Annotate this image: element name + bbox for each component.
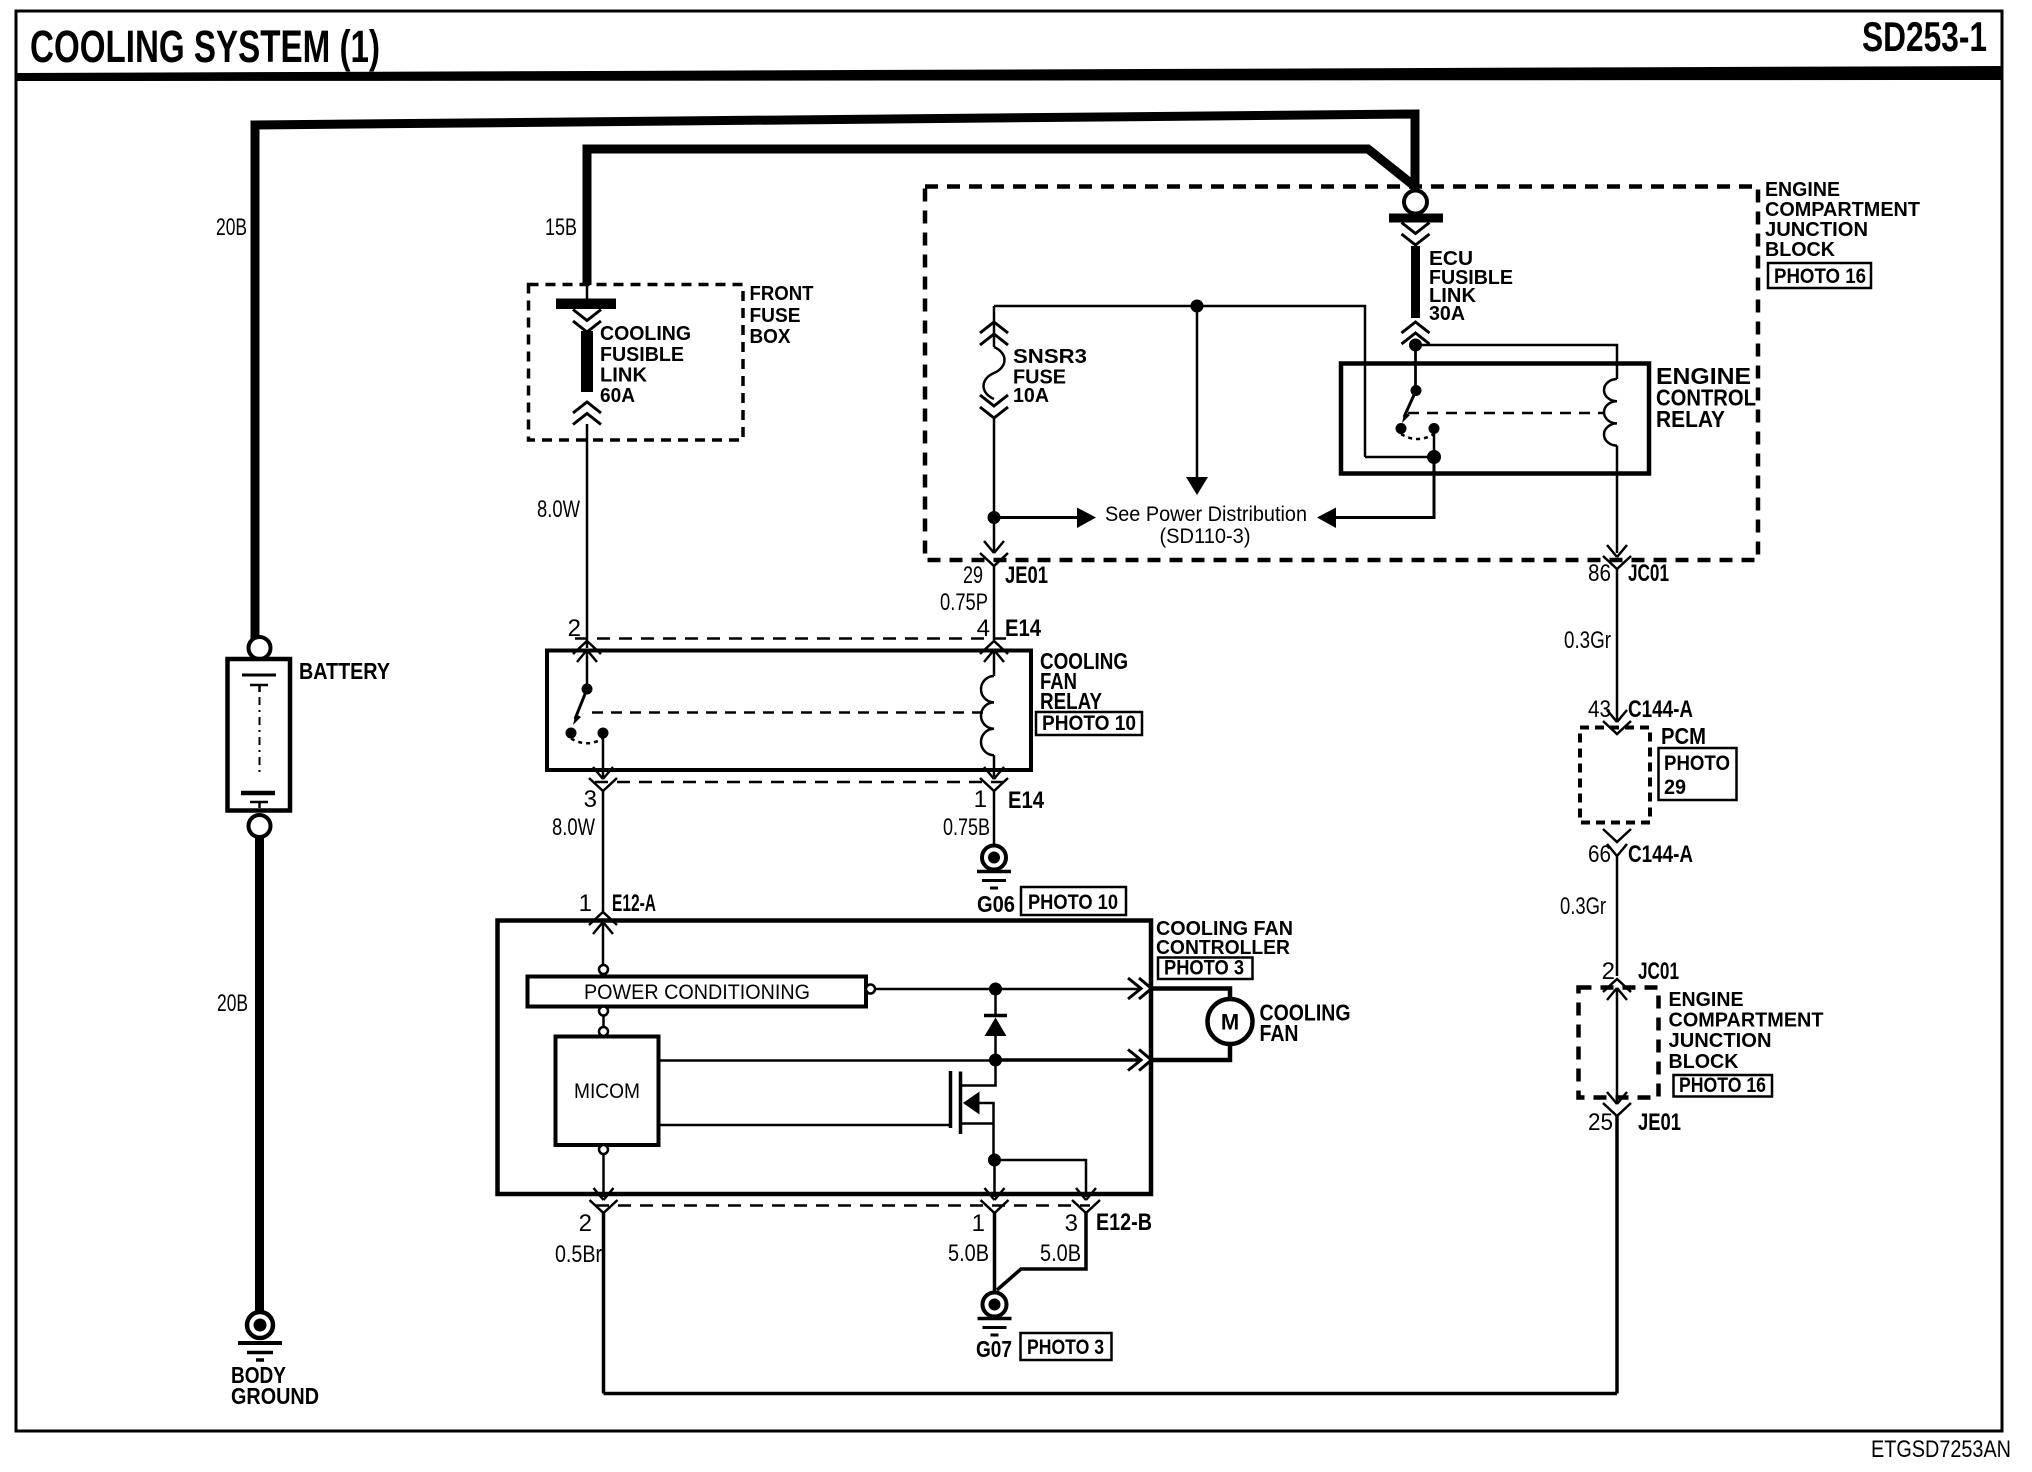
switch NO contact [1429,423,1440,434]
svg-text:1: 1 [972,1210,985,1237]
photo 10 box [1036,712,1142,735]
svg-text:FRONT: FRONT [750,283,814,305]
svg-text:8.0W: 8.0W [537,496,580,523]
wire arrow right to power distribution [994,516,1077,519]
photo 3 box (G07) [1021,1333,1112,1360]
svg-text:20B: 20B [216,214,247,241]
wire source to pin 3 [995,1160,1087,1197]
svg-text:SNSR3: SNSR3 [1013,346,1087,368]
svg-text:0.75B: 0.75B [943,814,990,841]
connector E14 pin 3 [593,767,613,779]
photo 10 box (G06) [1021,887,1126,915]
svg-text:15B: 15B [545,214,577,241]
switch throw arc (dashed) [1401,434,1434,439]
transistor Q1 drain lead [961,1066,996,1086]
wire 8.0W relay to controller [602,791,605,912]
svg-text:E12-A: E12-A [612,890,656,917]
terminal below MICOM [599,1145,608,1154]
chevron out top [1128,978,1152,999]
svg-text:ENGINE: ENGINE [1765,179,1840,201]
feed ring connector [1404,191,1427,214]
actuation line (dashed) [592,711,986,714]
svg-text:JUNCTION: JUNCTION [1765,219,1868,241]
title rule [16,66,2002,81]
fuse SNSR3 10A [980,322,1008,345]
wire 20B to body ground (thick) [255,837,264,1311]
svg-text:BATTERY: BATTERY [299,658,390,684]
svg-text:FUSE: FUSE [750,305,801,327]
MICOM U2 [556,1037,659,1146]
cooling fan controller box [498,921,1152,1195]
svg-text:C144-A: C144-A [1628,696,1693,723]
connector JE01 pin 29 [984,541,1004,553]
svg-text:86: 86 [1588,560,1611,587]
wire to relay coil [1416,345,1618,379]
wire bottom run to JE01 [604,1392,1618,1396]
ground G07 [983,1293,1007,1317]
wire motor bottom to controller [1151,1044,1230,1060]
PC output terminal [866,985,875,994]
svg-text:29: 29 [963,562,983,589]
svg-text:5.0B: 5.0B [1040,1240,1081,1267]
PCM box (dashed) [1580,728,1650,823]
svg-text:FAN: FAN [1260,1020,1299,1046]
svg-text:G06: G06 [977,891,1015,917]
relay coil [1604,379,1617,446]
svg-text:JE01: JE01 [1005,562,1048,589]
svg-text:COMPARTMENT: COMPARTMENT [1669,1010,1824,1032]
engine control relay box [1341,364,1649,474]
relay coil [993,651,996,677]
connector C144-A pin 43 [1607,710,1627,722]
wire 5.0B pin 1 to ground [993,1213,997,1292]
connector E14 dashed line bottom [595,781,1010,784]
svg-text:PHOTO 3: PHOTO 3 [1164,957,1244,980]
connector E12-A pin 1 [589,912,617,925]
terminals between PC and MICOM [599,1007,608,1016]
ground body symbol [247,1312,273,1338]
wire 20B battery feed (thick) [255,114,1415,642]
wire 0.75B to ground [993,791,996,846]
motor M1 cooling fan [1208,999,1253,1044]
svg-text:BLOCK: BLOCK [1669,1051,1740,1073]
svg-text:COMPARTMENT: COMPARTMENT [1765,199,1920,221]
svg-text:ENGINE: ENGINE [1669,989,1744,1011]
node SNSR3 top junction [1191,300,1204,313]
svg-text:PHOTO 16: PHOTO 16 [1679,1074,1766,1097]
node lower rail junction [989,1054,1002,1067]
svg-text:66: 66 [1588,841,1611,868]
svg-text:JE01: JE01 [1638,1109,1681,1136]
wire controller to motor top [1151,989,1230,1000]
svg-text:SD253-1: SD253-1 [1862,13,1987,60]
wire through junction block 2 [1616,988,1619,1104]
wire 15B feed (thick) [587,149,1413,285]
connector C144-A pin 66 [1603,829,1631,842]
front fuse box (dashed) [529,285,744,441]
svg-text:PHOTO: PHOTO [1664,752,1730,775]
transistor Q1 channel bar [959,1072,963,1135]
wire NO contact to node [1433,429,1436,458]
svg-text:3: 3 [1065,1210,1078,1237]
actuation line (dashed) [1408,412,1604,415]
switch NC contact [566,728,577,739]
wire link to relay switch [1414,344,1417,392]
wire MICOM upper output [659,1059,991,1062]
svg-text:M: M [1221,1010,1239,1035]
connector E14 pin 1 [984,767,1004,779]
svg-text:JC01: JC01 [1638,958,1679,985]
switch throw arc (dashed) [571,739,603,744]
ECU fusible link 30A element [1411,246,1420,318]
svg-text:MICOM: MICOM [574,1080,640,1103]
wire 0.5Br pin 2 down [602,1213,606,1394]
ground G06 [982,846,1006,870]
svg-text:POWER CONDITIONING: POWER CONDITIONING [584,981,810,1004]
svg-text:43: 43 [1588,696,1611,723]
diode D1 [994,989,997,1014]
connector E12-B pin 1 [985,1188,1005,1200]
connector E14 pin 4 [980,641,1008,654]
svg-text:E12-B: E12-B [1096,1209,1152,1236]
svg-text:G07: G07 [976,1336,1012,1362]
engine compartment junction block 2 (dashed) [1579,988,1659,1098]
chevrons below link [573,402,601,425]
battery B1 [228,659,291,811]
switch NO contact [598,728,609,739]
chevrons below link [1402,322,1430,344]
svg-text:29: 29 [1664,776,1686,799]
ECU supply bar [1389,214,1443,223]
svg-text:PHOTO 16: PHOTO 16 [1774,265,1866,288]
svg-text:2: 2 [1602,958,1615,985]
wire lower rail to output [996,1058,1141,1062]
svg-text:0.75P: 0.75P [940,589,988,616]
svg-text:3: 3 [584,786,597,813]
svg-text:COOLING: COOLING [600,323,691,345]
node relay output [1427,450,1441,464]
engine compartment junction block (dashed) [925,187,1758,561]
photo 29 box [1659,748,1737,800]
svg-text:10A: 10A [1013,385,1049,407]
switch common contact [1414,351,1417,390]
svg-text:FUSIBLE: FUSIBLE [600,344,684,366]
svg-text:30A: 30A [1429,303,1465,325]
transistor Q1 gate lead [659,1124,951,1127]
wire 0.3Gr PCM to junction block [1616,856,1619,976]
node top rail junction [989,983,1002,996]
svg-text:GROUND: GROUND [231,1383,319,1409]
switch common [586,651,589,690]
wire SNSR3 feed into relay [1365,456,1434,459]
photo 3 box [1158,958,1253,980]
switch arm [1404,391,1416,418]
wire SNSR3 branch top [994,306,1365,457]
wire arrow down to power distribution [1196,306,1199,478]
switch NC contact [1396,423,1407,434]
power conditioning U1 [528,977,867,1007]
connector E12-B dashed line [596,1204,1090,1207]
wire 8.0W fuse to relay pin2 [586,424,589,648]
node SNSR3 lower junction [988,511,1001,524]
wire PC output rail [875,988,1140,991]
cooling fusible link 60A element [581,331,593,392]
connector E12-B pin 2 [594,1188,614,1200]
svg-text:BLOCK: BLOCK [1765,239,1836,261]
wire NO to pin 3 [602,733,605,778]
svg-text:(SD110-3): (SD110-3) [1160,525,1251,548]
wire arrow left from relay switch [1335,462,1434,518]
svg-text:60A: 60A [600,385,635,407]
svg-text:PCM: PCM [1661,723,1706,749]
svg-text:0.3Gr: 0.3Gr [1560,893,1606,920]
cooling fan relay box [547,651,1031,771]
svg-text:BOX: BOX [750,326,792,348]
svg-text:4: 4 [977,615,990,642]
svg-text:COOLING SYSTEM (1): COOLING SYSTEM (1) [30,21,380,72]
svg-text:E14: E14 [1005,615,1042,642]
connector E14 dashed line top [575,637,1010,640]
wire 5.0B pin 3 to ground [997,1213,1086,1290]
wire feed into fuse [586,285,589,299]
transistor Q1 source arrow [963,1092,980,1115]
switch arm [575,689,587,719]
svg-text:PHOTO 10: PHOTO 10 [1042,712,1136,735]
connector JC01 pin 2 [1603,979,1631,992]
svg-text:E14: E14 [1008,787,1045,814]
photo 16 box [1768,263,1871,288]
battery top terminal ring [249,637,271,659]
chevrons below bar [1402,223,1430,246]
svg-text:8.0W: 8.0W [552,814,595,841]
svg-text:JUNCTION: JUNCTION [1669,1030,1772,1052]
chevrons below bar [573,310,601,333]
svg-text:LINK: LINK [600,365,648,387]
wire source to pin 1 [993,1160,996,1197]
fusible link supply bar [556,299,616,310]
wire pin1 to power conditioning [602,922,605,965]
svg-text:2: 2 [568,615,581,642]
photo 16 box (block 2) [1674,1075,1773,1097]
connector E12-B pin 3 [1076,1188,1096,1200]
connector E14 pin 2 [573,641,601,654]
svg-text:RELAY: RELAY [1040,688,1102,714]
svg-text:20B: 20B [217,990,248,1017]
battery bottom ring [249,815,271,837]
wire JE01 to bottom run [1615,1116,1619,1394]
svg-text:JC01: JC01 [1628,560,1669,587]
svg-text:0.5Br: 0.5Br [555,1241,602,1268]
svg-text:PHOTO 3: PHOTO 3 [1027,1336,1104,1359]
node source junction [988,1154,1001,1167]
svg-text:1: 1 [974,786,987,813]
svg-text:1: 1 [579,890,592,917]
svg-text:25: 25 [1588,1109,1613,1136]
connector JC01 pin 86 [1607,545,1627,557]
connector JE01 pin 25 [1607,1092,1627,1104]
chevron out bottom [1128,1050,1152,1071]
svg-text:RELAY: RELAY [1656,406,1725,432]
svg-text:2: 2 [579,1210,592,1237]
svg-text:0.3Gr: 0.3Gr [1564,627,1611,654]
wire MICOM to pin 2 [602,1154,605,1197]
node feed junction [1409,339,1422,352]
svg-text:C144-A: C144-A [1628,841,1693,868]
svg-text:5.0B: 5.0B [948,1240,989,1267]
transistor Q1 gate bar [949,1071,953,1128]
svg-text:See Power Distribution: See Power Distribution [1105,503,1307,526]
svg-text:ETGSD7253AN: ETGSD7253AN [1871,1436,2011,1463]
svg-text:PHOTO 10: PHOTO 10 [1028,891,1118,914]
